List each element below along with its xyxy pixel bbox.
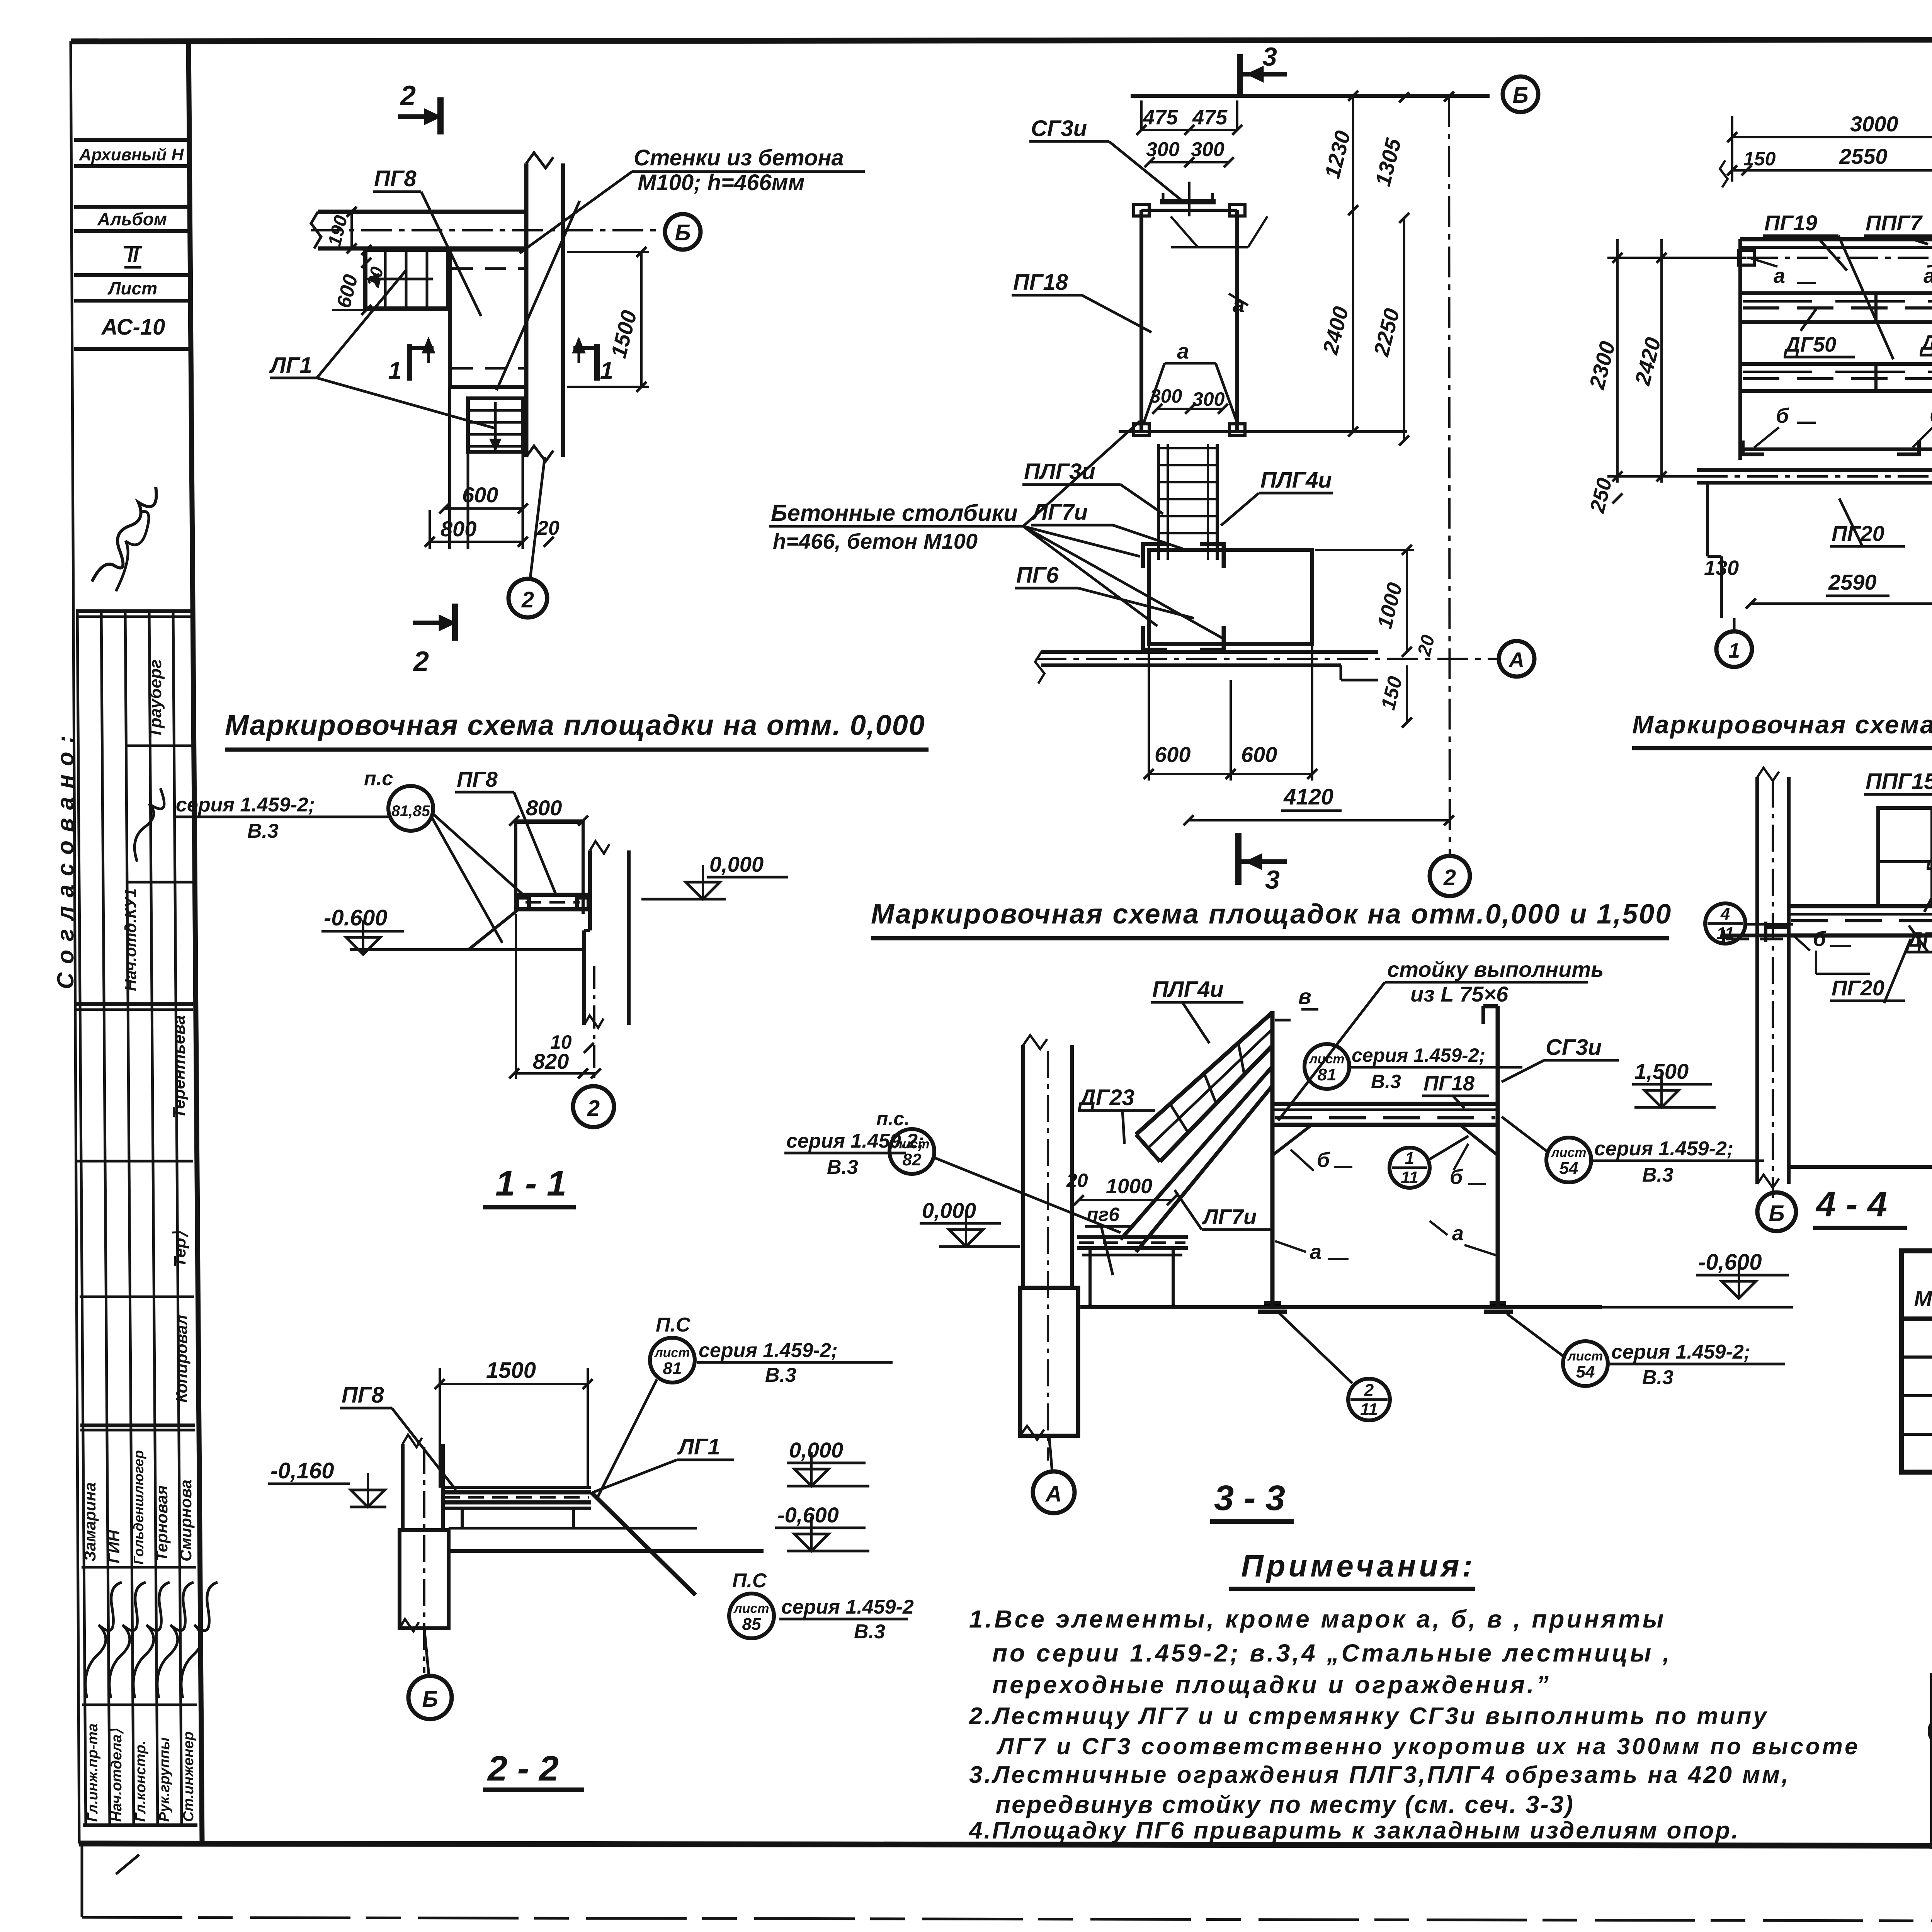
svg-text:В.3: В.3 xyxy=(1371,1071,1401,1092)
svg-text:В.3: В.3 xyxy=(854,1621,885,1643)
S44 grid circle Б bottom xyxy=(1757,1192,1796,1231)
svg-text:А: А xyxy=(1045,1481,1062,1507)
svg-text:3 - 3: 3 - 3 xyxy=(1214,1478,1285,1518)
svg-text:СГ3и: СГ3и xyxy=(1031,116,1087,141)
S33 ladder LG7i diagonal xyxy=(1121,1066,1272,1240)
svg-text:ДГ47: ДГ47 xyxy=(1920,331,1932,354)
D2 dim 600 600 bottom xyxy=(1149,773,1312,775)
D3 bottom corner angle marks xyxy=(1743,440,1764,454)
svg-text:2: 2 xyxy=(413,646,429,677)
svg-text:ПГ18: ПГ18 xyxy=(1013,270,1068,295)
svg-text:800: 800 xyxy=(440,517,476,541)
svg-text:лист: лист xyxy=(654,1345,690,1360)
svg-text:3.Лестничные ограждения ПЛГ3,П: 3.Лестничные ограждения ПЛГ3,ПЛГ4 обреза… xyxy=(969,1762,1790,1788)
svg-text:Смирнова: Смирнова xyxy=(177,1480,195,1561)
svg-text:ДГ23: ДГ23 xyxy=(1078,1085,1134,1110)
svg-text:-0,600: -0,600 xyxy=(777,1503,839,1527)
D1 under-slab line xyxy=(363,248,526,252)
svg-text:Копировал: Копировал xyxy=(172,1315,190,1403)
svg-text:П.С: П.С xyxy=(656,1314,691,1336)
svg-text:-0.600: -0.600 xyxy=(324,905,387,930)
svg-text:2: 2 xyxy=(521,587,534,612)
svg-text:1: 1 xyxy=(600,357,613,384)
D1 axis Б dash-dot xyxy=(311,229,663,231)
svg-text:h=466, бетон М100: h=466, бетон М100 xyxy=(773,529,978,553)
D3 dim 2590 xyxy=(1751,602,1932,605)
S11 diagonal xyxy=(468,910,517,950)
S33 центральная стойка xyxy=(1270,1011,1275,1307)
svg-text:4.Площадку ПГ6 приварить к з: 4.Площадку ПГ6 приварить к закладным изд… xyxy=(968,1817,1740,1844)
D3 beam band 2 xyxy=(1740,362,1932,366)
elements table outer xyxy=(1901,1251,1932,1472)
svg-text:82: 82 xyxy=(903,1150,922,1169)
D2 floor band xyxy=(1041,650,1378,654)
D2 dim 2250 xyxy=(1403,218,1405,440)
svg-text:1500: 1500 xyxy=(486,1358,536,1383)
sheet frame top border xyxy=(71,39,1932,41)
svg-text:1 - 1: 1 - 1 xyxy=(495,1164,566,1203)
svg-text:п.с: п.с xyxy=(364,767,393,790)
svg-text:ЛГ7 и СГ3 соответственно укоро: ЛГ7 и СГ3 соответственно укоротив их на … xyxy=(996,1733,1860,1759)
S22 ground line xyxy=(449,1549,764,1553)
S33 landing PG18 xyxy=(1272,1102,1498,1106)
S11 slab band xyxy=(517,893,588,897)
svg-text:ПЛГ4и: ПЛГ4и xyxy=(1260,468,1332,493)
svg-text:3000: 3000 xyxy=(1850,112,1898,136)
S44 left extension xyxy=(1766,925,1789,929)
D1 section mark 1 left xyxy=(407,344,412,381)
D3 dim 3000 xyxy=(1732,136,1932,138)
svg-text:ППГ15: ППГ15 xyxy=(1866,769,1932,794)
left strip signature scribble upper xyxy=(92,487,156,582)
svg-text:Замарина: Замарина xyxy=(81,1482,99,1561)
svg-text:600: 600 xyxy=(1155,742,1190,767)
svg-text:Маркировочная схема площадки н: Маркировочная схема площадки на отм. 2,2… xyxy=(1632,710,1932,739)
svg-text:2550: 2550 xyxy=(1839,144,1888,168)
svg-text:81,85: 81,85 xyxy=(391,803,430,820)
svg-text:300: 300 xyxy=(1191,138,1225,161)
svg-text:0,000: 0,000 xyxy=(709,852,764,876)
svg-text:Б: Б xyxy=(1769,1201,1784,1226)
sheet frame left thin border xyxy=(71,41,79,1844)
svg-text:ГИН: ГИН xyxy=(105,1529,123,1563)
svg-text:ЛГ1: ЛГ1 xyxy=(269,353,312,378)
left strip lower table horizontal lines xyxy=(76,609,191,613)
D1 dim 190 left xyxy=(350,212,353,248)
svg-text:85: 85 xyxy=(742,1615,761,1634)
svg-text:0,000: 0,000 xyxy=(922,1198,976,1223)
svg-text:ПГ6: ПГ6 xyxy=(1016,563,1059,588)
D2 shaft verticals xyxy=(1139,210,1143,432)
D2 top line xyxy=(1131,94,1490,98)
S33 ground line xyxy=(1080,1305,1602,1309)
svg-text:300: 300 xyxy=(1150,385,1182,407)
S22 heavy diagonal xyxy=(591,1492,696,1595)
svg-text:а: а xyxy=(1177,339,1189,363)
S33 platform PG6 xyxy=(1077,1235,1188,1239)
svg-text:А: А xyxy=(1508,648,1524,672)
svg-text:2: 2 xyxy=(400,80,416,111)
svg-text:серия 1.459-2: серия 1.459-2 xyxy=(781,1596,914,1618)
svg-text:2 - 2: 2 - 2 xyxy=(487,1749,559,1788)
D1 slab band xyxy=(318,210,526,214)
S11 platform outline xyxy=(516,820,583,824)
svg-text:1: 1 xyxy=(1728,639,1740,662)
svg-text:В.3: В.3 xyxy=(765,1364,796,1386)
svg-text:Б: Б xyxy=(422,1687,438,1712)
svg-text:п.с.: п.с. xyxy=(876,1108,910,1129)
svg-text:ДГ50: ДГ50 xyxy=(1784,333,1836,356)
svg-text:-0,600: -0,600 xyxy=(1698,1250,1762,1275)
sheet corner slash mark xyxy=(116,1855,139,1874)
S22 platform slab xyxy=(443,1486,591,1489)
svg-text:1: 1 xyxy=(1405,1149,1414,1168)
svg-text:820: 820 xyxy=(533,1049,569,1073)
svg-text:3: 3 xyxy=(1262,42,1277,71)
S33 left column foundation xyxy=(1020,1288,1078,1436)
D2 top bracket strut xyxy=(1160,199,1216,204)
svg-text:475: 475 xyxy=(1143,106,1178,129)
svg-text:Терновая: Терновая xyxy=(153,1485,171,1561)
svg-text:3: 3 xyxy=(1265,865,1280,895)
S33 grid circle A xyxy=(1033,1471,1075,1513)
svg-text:Стенки из бетона: Стенки из бетона xyxy=(634,145,844,170)
D1 dim 600-20 left xyxy=(365,250,367,310)
svg-text:М100; h=466мм: М100; h=466мм xyxy=(638,170,804,195)
D3 dim 2300 xyxy=(1616,239,1619,483)
svg-text:ЛГ1: ЛГ1 xyxy=(677,1434,720,1459)
svg-text:150: 150 xyxy=(1743,148,1776,170)
D3 band mid verticals xyxy=(1874,293,1878,322)
D2 corner plates top xyxy=(1134,204,1149,216)
svg-text:81: 81 xyxy=(663,1359,682,1378)
D1 section mark 2 bottom xyxy=(413,621,451,625)
svg-text:серия 1.459-2;: серия 1.459-2; xyxy=(1611,1341,1750,1363)
S11 right wall xyxy=(588,850,592,930)
svg-text:В.3: В.3 xyxy=(827,1156,858,1179)
svg-text:1: 1 xyxy=(388,357,401,384)
svg-text:0,000: 0,000 xyxy=(789,1438,843,1462)
svg-text:2590: 2590 xyxy=(1828,570,1877,594)
svg-text:20: 20 xyxy=(537,517,560,539)
svg-text:Нач.отд.КУ1: Нач.отд.КУ1 xyxy=(121,888,139,991)
svg-text:серия 1.459-2;: серия 1.459-2; xyxy=(1594,1138,1733,1160)
D1 dim 600 bottom xyxy=(444,507,523,510)
svg-text:Гл.инж.пр-та: Гл.инж.пр-та xyxy=(85,1723,101,1822)
S33 callout лист 81 серия xyxy=(1304,1044,1349,1089)
svg-text:б: б xyxy=(1776,404,1789,427)
svg-text:Нач.отдела⟩: Нач.отдела⟩ xyxy=(109,1728,125,1822)
S33 braces under landing xyxy=(1272,1125,1312,1155)
svg-text:Маркировочная схема площадок н: Маркировочная схема площадок на отм.0,00… xyxy=(871,899,1672,930)
svg-text:лист: лист xyxy=(1567,1349,1603,1364)
svg-text:300: 300 xyxy=(1146,138,1180,161)
D1 landing dashed lines xyxy=(452,267,524,270)
svg-text:лист: лист xyxy=(733,1601,769,1616)
D2 dim 475 475 xyxy=(1141,129,1237,131)
D3 axis B dash-dot bottom xyxy=(1697,475,1932,478)
D3 platform bottom xyxy=(1740,447,1932,451)
D3 axis dash-dot top xyxy=(1697,257,1932,259)
svg-text:20: 20 xyxy=(1066,1170,1088,1191)
D3 grid circle 1 xyxy=(1716,631,1752,667)
svg-text:130: 130 xyxy=(1704,556,1739,580)
left strip signatures cursive band xyxy=(85,1582,122,1698)
svg-text:Гл.констр.: Гл.констр. xyxy=(133,1741,149,1822)
svg-text:серия 1.459-2;: серия 1.459-2; xyxy=(1352,1044,1485,1066)
S33 right stanchion SG3i xyxy=(1496,1006,1500,1307)
D1 section mark 2 top xyxy=(398,114,436,119)
svg-text:800: 800 xyxy=(526,796,562,820)
D3 platform top edge xyxy=(1740,237,1932,241)
svg-text:пг6: пг6 xyxy=(1087,1204,1120,1225)
S22 grid circle Б xyxy=(408,1676,452,1719)
svg-text:Гольденшлюгер: Гольденшлюгер xyxy=(131,1450,146,1565)
D3 lower left step xyxy=(1706,483,1709,556)
D2 horizontal line mid through plates xyxy=(1119,430,1407,433)
svg-text:-0,160: -0,160 xyxy=(270,1458,334,1483)
svg-text:Терентьева: Терентьева xyxy=(170,1015,189,1119)
svg-text:2.Лестницу ЛГ7 и и стремянку: 2.Лестницу ЛГ7 и и стремянку СГ3и выполн… xyxy=(969,1703,1769,1730)
svg-text:передвинув стойку по месту: передвинув стойку по месту (см. сеч. 3-3… xyxy=(995,1791,1574,1818)
svg-text:В.3: В.3 xyxy=(247,820,279,842)
D2 stair flight vertical rails xyxy=(1157,444,1160,560)
D1 wall verticals xyxy=(524,163,529,457)
left strip lower box vertical xyxy=(81,1844,83,1917)
svg-text:2: 2 xyxy=(587,1096,600,1121)
S33 fence PLG4i diagonal xyxy=(1136,1012,1272,1134)
S33 left column xyxy=(1021,1045,1025,1288)
svg-text:б: б xyxy=(1450,1165,1463,1189)
D3 corner plates xyxy=(1739,250,1754,265)
D2 dim 300 300 top xyxy=(1150,161,1229,163)
D1 stair flight lower plan xyxy=(468,398,523,452)
svg-text:Примечания:: Примечания: xyxy=(1241,1549,1476,1583)
svg-text:Б: Б xyxy=(675,220,690,245)
D2 axis B circle top xyxy=(1503,77,1538,112)
svg-text:б: б xyxy=(1317,1148,1330,1172)
svg-text:П.С: П.С xyxy=(732,1570,767,1592)
svg-text:Согласовано:: Согласовано: xyxy=(53,727,78,989)
D3 dim 150 2550 xyxy=(1732,169,1932,172)
svg-text:ПГ20: ПГ20 xyxy=(1832,976,1884,1000)
left strip right edge xyxy=(189,41,202,1844)
svg-text:Марка: Марка xyxy=(1914,1286,1932,1311)
S22 dim 1500 xyxy=(440,1383,588,1385)
svg-text:б: б xyxy=(1813,927,1827,951)
svg-text:лист: лист xyxy=(1550,1145,1586,1160)
svg-text:лист: лист xyxy=(893,1137,929,1151)
svg-text:а: а xyxy=(1774,264,1785,287)
S11 wall centerline xyxy=(593,966,595,1084)
D1 section mark 1 right xyxy=(594,344,600,381)
svg-text:4 - 4: 4 - 4 xyxy=(1815,1185,1887,1224)
svg-text:АС-10: АС-10 xyxy=(101,315,165,340)
caption fraction circle 4/11 xyxy=(1705,903,1745,944)
D2 section mark 3 top xyxy=(1237,54,1243,95)
D2 stair rungs xyxy=(1158,447,1217,449)
svg-text:серия 1.459-2;: серия 1.459-2; xyxy=(699,1339,838,1362)
svg-text:Ст.инженер: Ст.инженер xyxy=(180,1731,197,1822)
S44 wall column xyxy=(1755,777,1759,1184)
D2 corner plates mid xyxy=(1134,424,1149,435)
left strip lower table verticals xyxy=(77,611,86,1825)
S33 callout лист 54 lower xyxy=(1563,1341,1608,1386)
S22 right support xyxy=(449,1527,697,1530)
S33 circle 1/11 xyxy=(1389,1148,1430,1188)
D2 axis A circle xyxy=(1499,641,1534,677)
D2 section mark 3 bottom xyxy=(1235,833,1242,885)
D2 axis 2 vertical dash-dot xyxy=(1449,96,1450,855)
svg-text:в: в xyxy=(1298,984,1311,1009)
svg-text:стойку выполнить: стойку выполнить xyxy=(1387,957,1604,981)
svg-text:САНТЕХПРОЕКТ: САНТЕХПРОЕКТ xyxy=(1926,1712,1932,1751)
svg-text:ППГ7: ППГ7 xyxy=(1866,211,1923,235)
S44 fence PPG15 xyxy=(1878,808,1932,906)
S33 circle 2/11 xyxy=(1348,1379,1390,1420)
svg-text:переходные площадки и огражд: переходные площадки и ограждения.” xyxy=(992,1671,1551,1699)
D1 stair flight upper plan xyxy=(365,250,448,308)
D3 dim 2420 xyxy=(1660,239,1663,483)
svg-text:лист: лист xyxy=(1308,1052,1344,1066)
svg-text:475: 475 xyxy=(1192,106,1228,129)
D1 wall below lines xyxy=(448,387,451,549)
svg-text:Архивный Н: Архивный Н xyxy=(79,145,184,164)
svg-text:54: 54 xyxy=(1560,1159,1578,1178)
D2 axis A dash-dot xyxy=(1036,658,1498,660)
D2 PG6 corner brackets xyxy=(1143,544,1167,568)
svg-text:54: 54 xyxy=(1576,1362,1595,1381)
S11 dim 800 xyxy=(514,820,583,822)
D2 dim 1000 right xyxy=(1406,550,1408,652)
svg-text:ЛГ7и: ЛГ7и xyxy=(1202,1204,1257,1229)
S33 callout лист 54 upper xyxy=(1546,1138,1591,1182)
svg-text:11: 11 xyxy=(1360,1400,1378,1419)
S44 platform band xyxy=(1789,904,1932,908)
svg-text:а: а xyxy=(1452,1222,1464,1245)
S11 grid circle 2 xyxy=(573,1086,614,1127)
svg-text:2: 2 xyxy=(1443,865,1456,890)
svg-text:В.3: В.3 xyxy=(1642,1366,1673,1389)
svg-text:Лист: Лист xyxy=(107,278,157,298)
svg-text:Б: Б xyxy=(1512,83,1528,108)
svg-text:600: 600 xyxy=(1241,742,1277,767)
svg-text:серия 1.459-2;: серия 1.459-2; xyxy=(176,794,315,816)
svg-text:ПГ8: ПГ8 xyxy=(342,1383,384,1408)
D3 platform left edge xyxy=(1738,239,1742,460)
left strip box lines top section xyxy=(74,138,189,142)
svg-text:4: 4 xyxy=(1720,905,1730,923)
svg-text:б: б xyxy=(1930,404,1932,427)
svg-text:11: 11 xyxy=(1401,1168,1418,1187)
D3 beam band 1 xyxy=(1740,291,1932,295)
D3 bottom band xyxy=(1697,468,1932,472)
svg-text:1.Все элементы, кроме марок а: 1.Все элементы, кроме марок а, б, в , пр… xyxy=(969,1605,1666,1633)
D1 landing PG8 outline xyxy=(448,250,452,387)
S44 ground line xyxy=(1789,1165,1932,1169)
svg-text:Альбом: Альбом xyxy=(97,209,167,229)
D2 dim 300 300 lower xyxy=(1157,408,1223,410)
svg-text:ПГ19: ПГ19 xyxy=(1764,211,1817,235)
D1 axis Б circle xyxy=(665,214,701,250)
svg-text:а: а xyxy=(1923,264,1932,287)
D1 grid circle 2 xyxy=(509,579,547,617)
svg-text:ПГ20: ПГ20 xyxy=(1832,521,1884,546)
svg-text:300: 300 xyxy=(1192,388,1225,410)
svg-text:ПЛГ4и: ПЛГ4и xyxy=(1152,977,1224,1002)
svg-text:СГ3и: СГ3и xyxy=(1546,1035,1602,1060)
left strip rotated signature xyxy=(134,788,164,862)
svg-text:из L 75×6: из L 75×6 xyxy=(1410,982,1509,1006)
D1 dim 800-20 bottom xyxy=(430,541,523,543)
D2 grid circle 2 bottom xyxy=(1430,856,1470,896)
svg-text:81: 81 xyxy=(1318,1065,1337,1084)
svg-text:4120: 4120 xyxy=(1283,784,1333,810)
svg-text:Тер⟩: Тер⟩ xyxy=(170,1231,189,1267)
svg-text:ПГ8: ПГ8 xyxy=(374,166,417,191)
sheet frame bottom border xyxy=(79,1844,1932,1847)
svg-text:ПГ8: ПГ8 xyxy=(457,767,498,791)
S33 base pads xyxy=(1258,1310,1287,1314)
elements row lines xyxy=(1901,1355,1932,1359)
svg-text:а: а xyxy=(1310,1240,1321,1264)
svg-text:Рук.группы: Рук.группы xyxy=(156,1737,173,1822)
svg-text:по серии 1.459-2; в.3,4 „Сталь: по серии 1.459-2; в.3,4 „Стальные лестни… xyxy=(992,1639,1672,1667)
D2 dim 4120 xyxy=(1189,819,1449,821)
svg-text:В.3: В.3 xyxy=(1642,1164,1673,1186)
sheet lower cut dashed line xyxy=(82,1917,1932,1922)
S22 left wall and foundation xyxy=(401,1444,405,1530)
D2 Бетонные столбики leaders xyxy=(1023,421,1140,526)
svg-text:1000: 1000 xyxy=(1106,1175,1152,1198)
svg-text:Маркировочная схема площадки н: Маркировочная схема площадки на отм. 0,0… xyxy=(225,709,925,741)
D2 platform PG6 plan xyxy=(1149,550,1312,644)
svg-text:Трауберг: Трауберг xyxy=(146,659,165,738)
svg-text:2: 2 xyxy=(1364,1381,1374,1400)
svg-text:600: 600 xyxy=(462,483,498,507)
svg-text:Бетонные столбики: Бетонные столбики xyxy=(771,500,1018,526)
D1 dim 1500 right xyxy=(640,252,643,387)
svg-text:ПГ18: ПГ18 xyxy=(1423,1072,1475,1095)
D2 dim 2400 xyxy=(1352,96,1354,432)
